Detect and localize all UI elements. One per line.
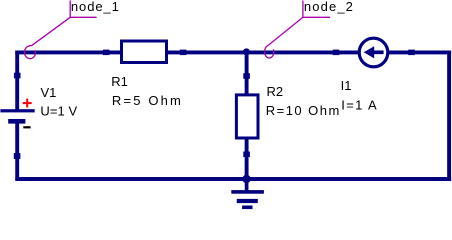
wire left vertical lower (15, 122, 19, 180)
wire right vertical (447, 51, 451, 181)
wire bottom horizontal (15, 177, 451, 181)
svg-text:R1: R1 (111, 74, 128, 89)
node_1 callout lines (32, 1, 97, 46)
node_2 callout curl (265, 45, 274, 58)
node_1 callout curl (25, 46, 36, 59)
svg-text:R2: R2 (267, 84, 284, 99)
wire middle vertical upper (245, 51, 249, 96)
voltage source V1 (battery) (0, 73, 34, 159)
svg-text:R=5 Ohm: R=5 Ohm (112, 93, 181, 108)
wire I1 to top-right corner (387, 50, 451, 54)
svg-text:I=1 A: I=1 A (341, 98, 377, 113)
wire node_2 to I1 (246, 50, 360, 54)
wire middle vertical lower (245, 138, 249, 180)
ground (231, 179, 264, 209)
current source I1 (333, 38, 415, 67)
node_2 junction dot (243, 48, 250, 55)
svg-text:I1: I1 (341, 78, 352, 93)
resistor R2 (236, 73, 258, 157)
wire top-left segment (15, 50, 122, 54)
svg-text:node_2: node_2 (304, 0, 353, 14)
svg-text:U=1 V: U=1 V (40, 103, 77, 118)
V1 minus sign (23, 126, 30, 128)
V1 plus sign (23, 99, 32, 108)
svg-text:V1: V1 (41, 85, 57, 100)
wire top middle segment R1 to node_2 (166, 50, 248, 54)
node_2 callout lines (268, 1, 330, 46)
wire left vertical upper (15, 51, 19, 111)
svg-text:node_1: node_1 (71, 0, 119, 14)
resistor R1 (103, 41, 187, 63)
svg-text:R=10 Ohm: R=10 Ohm (266, 103, 340, 118)
ground junction dot (242, 175, 250, 183)
